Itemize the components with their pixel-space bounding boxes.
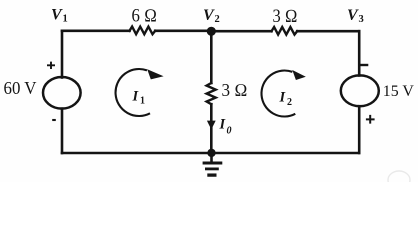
svg-text:3 Ω: 3 Ω (273, 7, 298, 27)
svg-text:3: 3 (359, 14, 364, 25)
svg-text:1: 1 (140, 96, 145, 107)
ground stub (210, 153, 213, 162)
voltage source 60 V (43, 77, 81, 109)
svg-text:0: 0 (227, 126, 232, 137)
svg-text:2: 2 (215, 14, 220, 25)
wire left vertical lower (60V source to bottom wire) (61, 109, 64, 153)
svg-text:1: 1 (63, 14, 68, 25)
polarity - of 60 V source (52, 119, 56, 121)
svg-text:I: I (219, 117, 227, 133)
ground symbol bars (203, 163, 223, 175)
mesh current loop I1 arrowhead (147, 69, 163, 79)
svg-text:V: V (203, 7, 215, 24)
ground node junction dot (207, 149, 215, 157)
mesh current loop I1 arc (116, 69, 150, 116)
wire top-left horizontal (V1 to 6-ohm) (62, 29, 130, 32)
wire right vertical lower (15V source to bottom wire) (358, 106, 361, 153)
mesh current loop I2 arc (261, 70, 295, 116)
resistor 3 ohm (top) (272, 27, 298, 35)
svg-text:I: I (132, 89, 140, 105)
polarity + of 60 V source (47, 62, 55, 69)
current I0 arrowhead (downward on center wire) (207, 121, 216, 130)
svg-text:6 Ω: 6 Ω (132, 7, 158, 27)
svg-text:2: 2 (287, 97, 292, 108)
resistor 3 ohm (vertical, center) (207, 83, 216, 104)
svg-text:15 V: 15 V (383, 83, 415, 100)
wire center vertical lower (3-ohm through I0 arrow to ground node) (210, 104, 213, 153)
resistor 6 ohm (130, 27, 156, 35)
svg-text:3 Ω: 3 Ω (222, 80, 248, 100)
wire bottom horizontal (62, 152, 359, 155)
wire top-middle (6-ohm to node V2) (155, 29, 211, 32)
polarity - of 15 V source (360, 64, 369, 66)
svg-text:60 V: 60 V (4, 78, 37, 98)
faint scan artifact circle bottom right (388, 171, 410, 189)
voltage source 15 V (341, 75, 379, 106)
node V2 junction dot (207, 27, 216, 36)
svg-text:I: I (279, 90, 287, 106)
mesh current loop I2 arrowhead (292, 70, 306, 80)
wire center vertical upper (node V2 down to 3-ohm) (210, 31, 213, 83)
wire left vertical upper (V1 corner down to 60V source) (61, 31, 64, 78)
wire right vertical upper (V3 corner down to 15V source) (358, 31, 361, 75)
svg-text:V: V (51, 7, 63, 24)
wire top (node V2 to 3-ohm) (211, 30, 271, 33)
polarity + of 15 V source (366, 115, 375, 124)
svg-text:V: V (347, 7, 359, 24)
wire top-right (3-ohm to V3 corner) (297, 30, 359, 33)
